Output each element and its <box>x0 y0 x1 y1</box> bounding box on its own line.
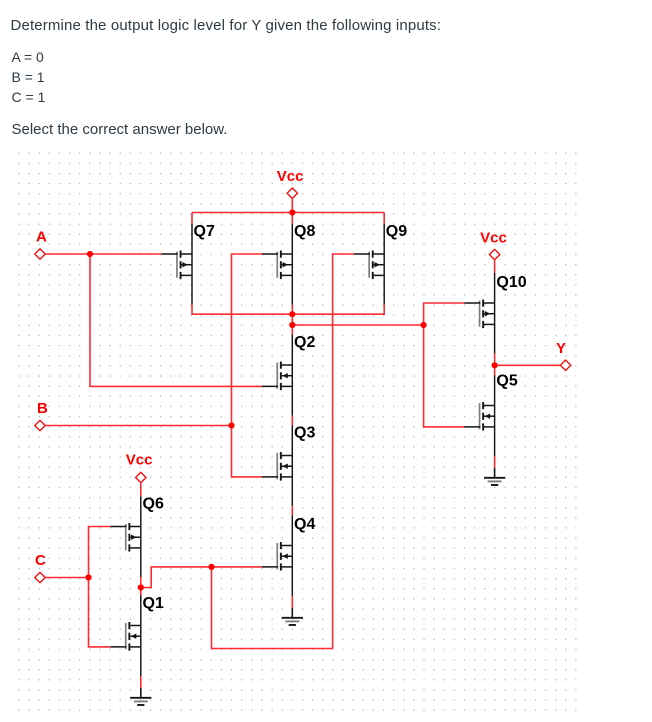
power VCC2 <box>126 452 153 483</box>
transistor Q3 <box>262 425 316 507</box>
wire Q7 drain drop <box>191 213 193 224</box>
wire B vertical down to Q3 gate <box>232 426 262 477</box>
svg-text:Q3: Q3 <box>294 425 315 442</box>
junction Vcc rail <box>289 209 295 215</box>
junction W1 node <box>289 311 295 317</box>
transistor Q4 <box>262 515 316 596</box>
wire gate vertical to Q10 gate <box>424 303 465 325</box>
wire Vcc3 lead to Q10 drain <box>494 260 496 273</box>
junction W2 / gate vertical <box>421 322 427 328</box>
ground GND2 <box>484 456 505 485</box>
svg-text:Q4: Q4 <box>294 516 315 533</box>
junction Q6/Q1 node <box>138 584 144 590</box>
wire top Vcc rail Q7-Q9 <box>192 212 384 214</box>
input B terminal <box>35 400 48 431</box>
wire Q7 source to node W1 <box>192 305 292 315</box>
ground GND1 <box>282 596 303 625</box>
transistor Q7 <box>162 223 215 305</box>
input A terminal <box>35 229 47 260</box>
svg-text:A: A <box>36 229 47 246</box>
svg-text:Q2: Q2 <box>294 334 315 351</box>
wire node Y to output terminal <box>495 364 561 366</box>
wire A branch down to Q2 gate <box>90 254 262 386</box>
output Y terminal <box>556 340 571 371</box>
svg-text:Vcc: Vcc <box>480 230 507 247</box>
wire input B <box>45 425 231 427</box>
svg-text:Vcc: Vcc <box>277 168 304 185</box>
wire Q9 source to node W1 <box>292 305 384 315</box>
svg-text:Q8: Q8 <box>294 223 315 240</box>
junction C branch <box>85 574 91 580</box>
wire Q8 drain drop <box>291 213 293 224</box>
transistor Q2 <box>262 334 316 416</box>
transistor Q1 <box>110 595 164 676</box>
svg-text:B: B <box>37 400 48 417</box>
wire Q10 source to Q5 drain (node Y) <box>494 354 496 376</box>
junction A branch <box>87 251 93 257</box>
junction output node Y <box>492 362 498 368</box>
wire bottom loop up to Q9 gate <box>333 254 354 649</box>
wire Q8 source through W1/W2 to Q2 drain <box>291 305 293 335</box>
transistor Q10 <box>464 273 527 354</box>
wire B vertical up to Q8 gate <box>232 254 262 426</box>
wire branch down from Q4 gate wire to bottom loop <box>212 567 333 649</box>
wire C vertical to Q6 gate <box>89 527 111 578</box>
junction B branch <box>228 422 234 428</box>
power VCC3 <box>480 230 507 260</box>
input C terminal <box>35 552 46 583</box>
wire Q3 source to Q4 drain <box>291 506 293 515</box>
transistor Q9 <box>354 223 407 305</box>
junction W2 node <box>289 322 295 328</box>
transistor Q5 <box>464 373 518 457</box>
svg-text:Vcc: Vcc <box>126 452 153 469</box>
svg-text:Q7: Q7 <box>194 223 215 240</box>
wire C vertical to Q1 gate <box>89 578 111 647</box>
junction Q4-gate / loop branch <box>208 564 214 570</box>
svg-text:Q6: Q6 <box>143 496 164 513</box>
transistor Q6 <box>110 496 164 578</box>
wire Q6/Q1 node to Q4 gate <box>141 567 262 588</box>
svg-text:Q5: Q5 <box>496 373 517 390</box>
power VCC1 <box>277 168 304 198</box>
svg-text:Y: Y <box>556 340 566 357</box>
wire gate vertical to Q5 gate <box>424 325 465 427</box>
svg-text:Q9: Q9 <box>386 223 407 240</box>
wire Q2 source to Q3 drain <box>291 416 293 426</box>
svg-text:C: C <box>35 552 46 569</box>
wire node W2 to Q10/Q5 gate vertical <box>292 324 423 326</box>
svg-text:Q10: Q10 <box>496 274 526 291</box>
wire Q9 drain drop <box>383 213 385 224</box>
svg-text:Q1: Q1 <box>143 595 164 612</box>
wire input A to Q7 gate <box>45 253 161 255</box>
ground GND3 <box>130 676 151 705</box>
wire Vcc2 lead to Q6 drain <box>140 483 142 496</box>
wire Vcc lead to top rail <box>291 198 293 212</box>
wire Q6 source to Q1 drain <box>140 577 142 595</box>
transistor Q8 <box>262 223 316 305</box>
wire input C <box>45 577 88 579</box>
